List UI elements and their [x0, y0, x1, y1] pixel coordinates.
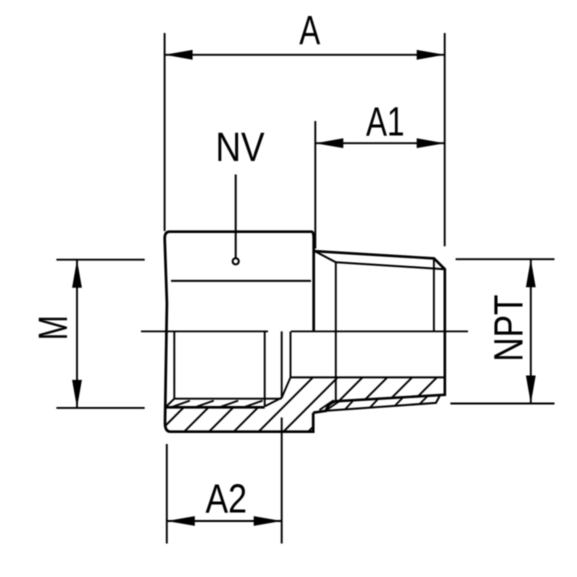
female thread marks — [172, 401, 263, 408]
svg-text:A1: A1 — [366, 98, 405, 144]
male thread root taper line (top) — [336, 262, 445, 269]
dimension M arrow bottom — [72, 380, 82, 408]
female thread crest line — [174, 398, 281, 400]
male neck steep line — [315, 251, 336, 262]
male tip chamfer vertical line — [433, 259, 435, 332]
svg-text:NV: NV — [216, 124, 266, 170]
hex flat edge line — [171, 280, 311, 282]
svg-text:A2: A2 — [206, 476, 248, 522]
dimension NPT extension line top — [456, 258, 555, 260]
female thread-end vertical — [264, 331, 266, 406]
male crest line bottom with chamfer — [326, 396, 440, 411]
dimension M line — [76, 260, 78, 408]
dimension A1 line — [315, 142, 444, 144]
male end outline (taper, chamfer, right face, root line) — [313, 251, 445, 413]
dimension M extension line bottom — [56, 407, 144, 409]
centerline left segment — [141, 330, 268, 332]
NV leader dot — [233, 258, 239, 264]
male thread-end vertical line — [335, 262, 337, 401]
bore-start vertical — [290, 331, 292, 377]
svg-text:NPT: NPT — [486, 295, 532, 362]
dimension M extension line top — [56, 259, 144, 261]
dimension A line — [165, 54, 445, 56]
NV leader line — [235, 175, 237, 258]
dimension M arrow top — [72, 260, 82, 288]
dimension A1 extension line left — [314, 121, 316, 249]
mouth chamfer line — [165, 399, 174, 408]
female thread root line — [165, 406, 265, 409]
dimension A extension line left — [164, 33, 166, 231]
dimension NPT extension line bottom — [450, 403, 554, 405]
hex body outline (left section) — [165, 232, 314, 432]
cavity-end vertical — [281, 331, 283, 397]
dimension A1 arrow left — [315, 138, 343, 148]
male thread runout marks — [319, 400, 340, 410]
dimension A2 extension line right — [281, 418, 283, 544]
dimension A arrow right — [417, 50, 445, 60]
dimension NPT line — [530, 259, 532, 403]
dimension A arrow left — [165, 50, 193, 60]
dimension NPT arrow bottom — [526, 376, 536, 404]
dimension A2 line — [167, 520, 282, 522]
dimension A2 extension line left — [166, 444, 168, 544]
dimension NPT arrow top — [526, 259, 536, 287]
hex right edge — [312, 232, 314, 332]
svg-text:A: A — [299, 7, 320, 53]
dimension A1 arrow right — [417, 138, 445, 148]
dimension A2 arrow left — [167, 516, 195, 526]
dimension A extension line right — [444, 33, 446, 246]
svg-text:M: M — [30, 315, 76, 340]
centerline right segment — [291, 330, 468, 332]
male thread band marks — [345, 396, 428, 410]
mouth inner vertical — [173, 331, 175, 398]
cavity bottom cone lines — [265, 377, 291, 406]
section hatching — [131, 330, 534, 435]
dimension A2 arrow right — [254, 516, 282, 526]
bore line — [291, 376, 445, 378]
